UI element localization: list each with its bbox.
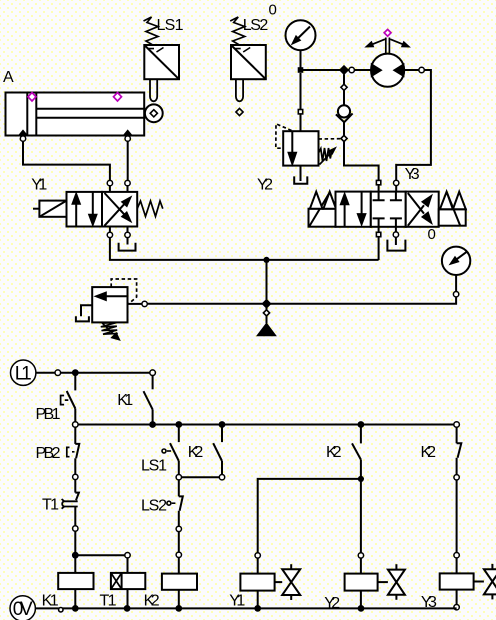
Y2 dashed line to check valve line bbox=[319, 138, 342, 140]
LS1 spring bbox=[144, 17, 159, 45]
contact PB1 (NO pushbutton) bbox=[74, 376, 76, 391]
Y2 inner flow arrow bbox=[291, 131, 293, 152]
wire Y1 branch bbox=[258, 479, 361, 553]
check valve V1 bbox=[338, 105, 350, 117]
Y2 spring bbox=[319, 148, 332, 161]
relief right port bbox=[128, 303, 142, 305]
Y3 solenoid valve symbol bbox=[474, 581, 484, 583]
LS2 plunger bbox=[236, 79, 243, 101]
wire gauge1 junction to motor line bbox=[301, 69, 342, 71]
hydraulic motor M1 bbox=[371, 54, 404, 87]
svg-text:Y1: Y1 bbox=[229, 593, 245, 610]
cylinder A rod bbox=[36, 108, 145, 110]
cylinder port circle right bbox=[125, 136, 130, 141]
gauge 1 needle bbox=[298, 27, 310, 39]
coil Y2 bbox=[360, 558, 362, 574]
coil Y3 bbox=[456, 558, 458, 574]
Y2 solenoid valve symbol bbox=[378, 581, 388, 583]
junction diamond at 344,70 bbox=[340, 66, 349, 75]
port circle 351.7,70 bbox=[349, 67, 354, 72]
Y3 tank bbox=[387, 240, 405, 251]
open diamond 266.5,312.9 bbox=[263, 310, 269, 316]
LS2 diagonal bbox=[231, 45, 266, 79]
gauge 1 stem wire bbox=[300, 50, 302, 70]
svg-text:PB2: PB2 bbox=[36, 445, 61, 462]
node 0V bbox=[10, 596, 35, 620]
square port 300.5,111.6 bbox=[298, 110, 302, 114]
svg-text:LS1: LS1 bbox=[141, 458, 167, 475]
svg-text:Y3: Y3 bbox=[405, 166, 420, 183]
svg-text:LS2: LS2 bbox=[243, 17, 269, 34]
LS1 inner contact mark bbox=[149, 48, 164, 53]
supply line y=260 bbox=[110, 238, 379, 260]
Y1 solenoid box bbox=[39, 201, 66, 217]
coil K1 bbox=[74, 555, 76, 573]
cylinder port circle left bbox=[20, 136, 25, 141]
junction diamond 266.5,303.7 bbox=[262, 299, 271, 308]
tank triangle bbox=[257, 323, 276, 336]
Y1 solenoid valve symbol bbox=[275, 581, 283, 583]
contact LS1 (NO limit switch) bbox=[178, 425, 180, 443]
cylinder port arrow right bbox=[123, 130, 132, 135]
cylinder magenta diamond left bbox=[28, 93, 36, 101]
Y3 left box up arrow bbox=[344, 204, 346, 226]
Y1 bottom-right tank bbox=[127, 238, 129, 245]
svg-text:LS1: LS1 bbox=[157, 17, 184, 34]
Y3 bottom right port circle bbox=[393, 232, 398, 237]
pressure gauge 1 bbox=[286, 20, 316, 50]
top rail bbox=[36, 372, 153, 374]
LS2 inner contact mark bbox=[235, 48, 250, 53]
svg-text:K2: K2 bbox=[326, 444, 342, 461]
svg-text:0: 0 bbox=[269, 2, 277, 19]
motor shaft bbox=[385, 38, 387, 54]
coil Y1 bbox=[257, 558, 259, 574]
motor right triangle bbox=[394, 64, 404, 77]
Y3 center box closed ports bbox=[373, 192, 385, 201]
node L1 bbox=[11, 360, 36, 385]
relief left drain bbox=[81, 305, 92, 316]
Y1 body right box bbox=[102, 192, 137, 227]
Y3 right box crossed arrows bbox=[408, 205, 424, 226]
limit valve LS2 box bbox=[231, 45, 266, 79]
cylinder magenta diamond right bbox=[114, 93, 122, 101]
contact K2 no.2 (NO) bbox=[360, 425, 362, 444]
motor left triangle bbox=[371, 64, 381, 77]
check valve line from junction 344,70 down bbox=[343, 74, 345, 84]
LS1 plunger bbox=[150, 79, 157, 101]
wire junction to motor bbox=[344, 69, 371, 71]
port circle 456,294.2 bbox=[453, 292, 458, 297]
contact K2 no.1 (NO) bbox=[221, 425, 223, 443]
svg-text:Y2: Y2 bbox=[257, 176, 273, 193]
relief valve Y2 body bbox=[283, 131, 318, 165]
roller at rod end bbox=[145, 104, 163, 122]
svg-text:Y1: Y1 bbox=[31, 176, 47, 193]
contact LS2 (NC limit switch) bbox=[178, 480, 180, 497]
Y3 left box down arrow bbox=[361, 192, 363, 214]
Y1 top ports bbox=[107, 180, 112, 185]
LS1 diagonal bbox=[144, 45, 179, 79]
svg-text:Y3: Y3 bbox=[421, 594, 437, 611]
contact K1 (NO) bbox=[152, 376, 154, 390]
Y2 pilot dashed line bbox=[276, 124, 292, 148]
Y1 spring right bbox=[137, 201, 163, 216]
Y3 right solenoid bbox=[439, 209, 466, 225]
coil K2 bbox=[178, 558, 180, 574]
svg-text:A: A bbox=[3, 69, 14, 86]
contact T1 (NC timed) bbox=[74, 480, 76, 493]
Y1 body left box bbox=[67, 192, 103, 227]
bottom rail bbox=[35, 607, 456, 609]
junction 266.5,260 bbox=[263, 257, 269, 263]
cylinder A body bbox=[6, 93, 145, 136]
Y3 left solenoid bbox=[309, 209, 336, 227]
svg-text:L1: L1 bbox=[15, 364, 32, 385]
svg-text:K2: K2 bbox=[144, 593, 160, 610]
Y2 adjust arrow bbox=[320, 153, 331, 164]
relief adjust arrow bbox=[102, 322, 114, 333]
cylinder port arrow left bbox=[19, 130, 28, 135]
svg-text:0V: 0V bbox=[13, 599, 33, 620]
relief inner arrow bbox=[107, 295, 128, 297]
svg-text:K2: K2 bbox=[188, 444, 204, 461]
Y3 bottom left square port bbox=[376, 232, 380, 236]
wire LS1 to K2 parallel bbox=[182, 476, 220, 478]
LS2 spring bbox=[230, 17, 245, 45]
svg-text:K2: K2 bbox=[421, 444, 437, 461]
Y1 left box down arrow bbox=[92, 192, 94, 215]
Y3 top left square port bbox=[376, 180, 380, 184]
relief valve bottom-left body bbox=[92, 287, 127, 322]
Y3 body center box bbox=[371, 192, 406, 227]
relief valve Y2 top wire bbox=[300, 73, 302, 109]
svg-text:K1: K1 bbox=[42, 593, 59, 610]
Y1 right box crossed arrows bbox=[105, 204, 125, 226]
relief pilot dashed bbox=[111, 279, 136, 304]
pressure gauge 2 bbox=[442, 247, 470, 275]
wire cylinder left port to Y1 bbox=[23, 141, 110, 180]
svg-text:LS2: LS2 bbox=[141, 498, 167, 515]
limit valve LS1 box bbox=[144, 45, 179, 79]
junction square at 300.5,70 bbox=[298, 67, 304, 73]
roller inner diamond bbox=[150, 110, 157, 117]
contact PB2 (NC pushbutton) bbox=[74, 427, 76, 444]
wire motor right to Y3 right port bbox=[404, 69, 419, 71]
Y3 top right port circle bbox=[394, 180, 399, 185]
svg-text:T1: T1 bbox=[42, 497, 59, 514]
Y1 left box up arrow bbox=[75, 204, 77, 227]
svg-text:PB1: PB1 bbox=[36, 406, 61, 423]
main line y=303.7 bbox=[147, 297, 456, 304]
Y1 bottom ports bbox=[107, 232, 112, 237]
open diamond port 344,138.5 bbox=[341, 135, 347, 141]
rail 2 bbox=[75, 424, 456, 426]
wire check line to Y3 top-left port bbox=[344, 142, 379, 181]
svg-text:K1: K1 bbox=[117, 392, 133, 409]
motor rotation arrow left bbox=[373, 39, 385, 44]
coil T1 (timer) bbox=[75, 554, 125, 556]
relief spring below bbox=[101, 323, 118, 335]
cylinder A piston bbox=[26, 93, 28, 136]
vertical to tank junction bbox=[266, 260, 268, 323]
Y2 tank bbox=[300, 166, 302, 181]
motor rotation arrow right bbox=[390, 39, 402, 44]
svg-text:Y2: Y2 bbox=[324, 595, 340, 612]
Y1 solenoid stub bbox=[33, 208, 39, 210]
Y3 body right box bbox=[406, 192, 439, 227]
open diamond port 344,87.3 bbox=[341, 84, 347, 90]
LS2 diamond below plunger bbox=[236, 108, 243, 115]
svg-text:0: 0 bbox=[428, 226, 436, 243]
Y3 body left box bbox=[336, 192, 371, 227]
wire cylinder right port to Y1 bbox=[127, 141, 129, 180]
motor shaft magenta diamond bbox=[384, 29, 391, 36]
svg-text:T1: T1 bbox=[100, 593, 117, 610]
contact K2 no.3 (NC) bbox=[456, 427, 458, 443]
